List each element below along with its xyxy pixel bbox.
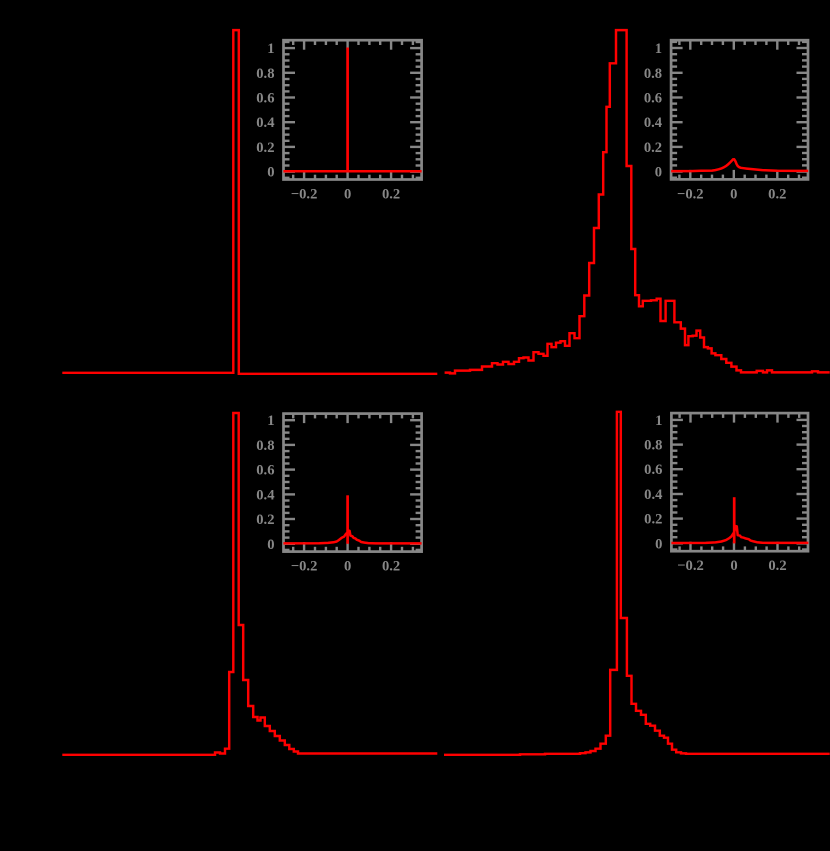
inset TR (top-right): red curve [671, 159, 808, 171]
svg-text:0.6: 0.6 [256, 463, 274, 479]
inset BR (bottom-right): ticks [671, 413, 808, 551]
inset BL (bottom-left): ticks [284, 414, 422, 552]
svg-text:0.4: 0.4 [256, 115, 275, 131]
svg-text:−0.2: −0.2 [291, 186, 318, 202]
svg-text:1: 1 [267, 413, 274, 429]
svg-text:0.2: 0.2 [644, 512, 662, 528]
svg-text:0.6: 0.6 [644, 462, 662, 478]
svg-text:0: 0 [730, 558, 737, 574]
inset BL (bottom-left): frame [284, 414, 422, 552]
svg-text:0.6: 0.6 [256, 91, 274, 107]
svg-text:0.2: 0.2 [256, 140, 274, 156]
inset TL (top-left): labels [256, 41, 400, 202]
svg-text:−0.2: −0.2 [677, 558, 704, 574]
inset BL (bottom-left): red curve [283, 531, 421, 544]
top-right histogram curve [445, 30, 830, 373]
svg-text:0: 0 [655, 536, 662, 552]
inset BL (bottom-left): red spike [346, 495, 349, 544]
svg-text:−0.2: −0.2 [291, 559, 318, 575]
svg-text:0: 0 [730, 186, 737, 202]
svg-text:0.2: 0.2 [256, 512, 274, 528]
svg-text:0: 0 [344, 186, 351, 202]
inset TR (top-right): frame [671, 40, 808, 179]
svg-text:0.4: 0.4 [256, 487, 275, 503]
inset TL (top-left): ticks [284, 40, 422, 179]
svg-text:0.6: 0.6 [644, 91, 662, 107]
inset TR (top-right): ticks [671, 40, 808, 179]
svg-text:−0.2: −0.2 [677, 186, 704, 202]
top-left histogram curve [62, 30, 437, 374]
svg-text:0.2: 0.2 [768, 186, 786, 202]
bottom-right histogram curve [444, 412, 830, 755]
svg-text:0.8: 0.8 [256, 66, 274, 82]
svg-text:0: 0 [267, 537, 274, 553]
bottom-left histogram curve [62, 413, 437, 755]
svg-text:0.2: 0.2 [382, 186, 400, 202]
svg-text:0.4: 0.4 [644, 115, 663, 131]
inset BR (bottom-right): frame [671, 413, 808, 551]
inset TL (top-left): red spike [346, 48, 349, 172]
svg-text:0.8: 0.8 [256, 438, 274, 454]
svg-text:0: 0 [267, 165, 274, 181]
svg-text:1: 1 [267, 41, 274, 57]
svg-text:0.8: 0.8 [644, 66, 662, 82]
inset BR (bottom-right): red curve [671, 526, 808, 543]
inset TR (top-right): labels [644, 41, 787, 202]
svg-text:0.2: 0.2 [768, 558, 786, 574]
svg-text:1: 1 [655, 413, 662, 429]
inset BL (bottom-left): labels [256, 413, 400, 574]
inset BR (bottom-right): labels [644, 413, 786, 574]
svg-text:0.8: 0.8 [644, 438, 662, 454]
svg-text:0: 0 [344, 559, 351, 575]
svg-text:1: 1 [655, 41, 662, 57]
svg-text:0.2: 0.2 [644, 140, 662, 156]
inset TL (top-left): frame [284, 40, 422, 179]
svg-text:0.2: 0.2 [382, 559, 400, 575]
inset BR (bottom-right): red spike [733, 497, 736, 543]
svg-text:0.4: 0.4 [644, 487, 663, 503]
inset TL (top-left): red curve [283, 170, 421, 173]
svg-text:0: 0 [655, 165, 662, 181]
